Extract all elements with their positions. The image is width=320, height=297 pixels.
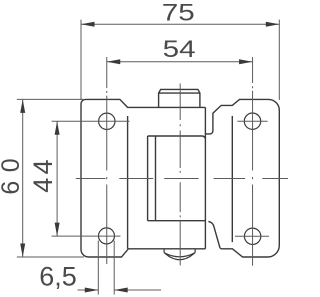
centerline hole column left <box>106 57 108 264</box>
centerline hole column right <box>252 57 254 266</box>
svg-text:44: 44 <box>28 160 58 193</box>
dim 54 line <box>107 61 253 63</box>
dim 75 arrows <box>81 22 279 27</box>
dim 44 line <box>56 121 58 236</box>
dim 6,5 arrows <box>85 288 128 293</box>
pin cap <box>159 89 200 107</box>
hole bottom-right <box>244 228 260 244</box>
hole crosshair bottom-right <box>235 235 269 237</box>
dim 75 extension right <box>278 20 280 100</box>
dim 60 arrows <box>20 99 25 257</box>
dim 60 line <box>22 99 24 257</box>
hinge right leaf outline <box>205 99 279 257</box>
hinge left leaf outline <box>81 99 205 257</box>
upper knuckle bottom edge <box>148 136 206 139</box>
dim 75 extension left <box>80 20 82 100</box>
dim 54 arrows <box>107 59 253 64</box>
middle knuckle left edges <box>148 136 156 221</box>
hole crosshair top-left with 44 extension <box>52 120 130 122</box>
dim 6,5 extension right <box>113 241 115 295</box>
svg-text:54: 54 <box>163 36 196 63</box>
svg-text:6,5: 6,5 <box>39 261 77 291</box>
dim 44 arrows <box>55 121 60 236</box>
dim 6,5 extension left <box>97 241 99 295</box>
hole top-left <box>99 113 115 129</box>
dim 60 extension bottom <box>17 256 84 258</box>
middle knuckle bottom edge <box>148 220 206 222</box>
dim 60 extension top <box>17 98 84 100</box>
barrel right edge <box>204 107 206 248</box>
centerline pin axis <box>179 84 181 266</box>
svg-text:75: 75 <box>162 0 195 26</box>
hinge left leaf inner edge <box>127 116 129 249</box>
dim 6,5 line tails <box>78 289 162 291</box>
svg-text:60: 60 <box>0 158 25 194</box>
hinge right leaf inner edge <box>231 116 233 242</box>
hole crosshair bottom-left with 44 extension <box>52 235 121 237</box>
dim 75 line <box>81 23 279 25</box>
pin bottom end <box>164 249 195 260</box>
hole crosshair top-right <box>237 120 267 122</box>
hole bottom-left <box>99 228 115 244</box>
hole top-right <box>244 113 260 129</box>
centerline horizontal part axis <box>76 178 288 180</box>
